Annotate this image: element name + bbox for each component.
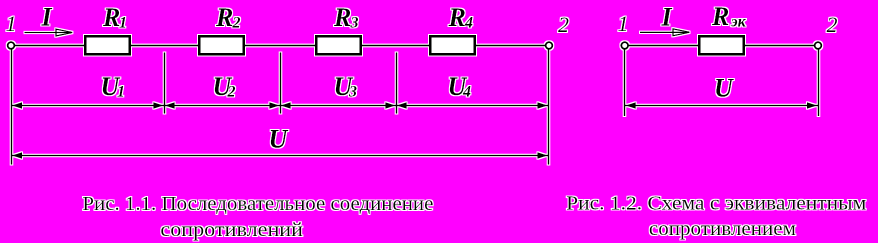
svg-text:I: I: [661, 3, 673, 32]
svg-text:3: 3: [350, 15, 359, 32]
svg-text:эк: эк: [730, 14, 747, 31]
resistor R4 body: [430, 36, 475, 54]
svg-text:U: U: [714, 74, 734, 103]
svg-text:2: 2: [558, 12, 569, 37]
node 2 (right circuit) terminal circle: [815, 42, 822, 49]
resistor R2 body: [199, 36, 244, 54]
svg-text:2: 2: [227, 84, 236, 101]
wire: R4 to node 2: [476, 45, 546, 47]
current arrow I (left circuit): [25, 29, 73, 36]
node 1 (left circuit) terminal circle: [8, 42, 15, 49]
svg-text:1: 1: [119, 15, 127, 32]
svg-text:R: R: [102, 3, 120, 32]
dimension arrow right end (U4): [538, 102, 548, 108]
svg-text:4: 4: [464, 15, 473, 32]
wire: R3 to R4: [362, 45, 430, 47]
dimension line total U row: [11, 155, 549, 157]
dimension arrow left end (right U): [626, 102, 636, 108]
svg-text:R: R: [448, 3, 466, 32]
dimension arrow right end (U): [538, 152, 548, 158]
wire: R2 to R3: [245, 45, 316, 47]
dimension extension line at right node 1: [624, 50, 626, 117]
svg-text:I: I: [41, 2, 53, 31]
svg-text:сопротивлений: сопротивлений: [160, 219, 303, 241]
svg-text:Рис. 1.1. Последовательное сое: Рис. 1.1. Последовательное соединение: [82, 193, 433, 215]
dimension arrow left end (U): [12, 152, 22, 158]
dimension tick between U1 and U2: [164, 53, 166, 114]
resistor R3 body: [316, 36, 361, 54]
current arrow I (right circuit): [640, 29, 689, 36]
wire: R1 to R2: [131, 45, 198, 47]
svg-text:R: R: [711, 2, 729, 31]
dimension line U1..U4 row: [11, 105, 549, 107]
svg-text:2: 2: [827, 12, 838, 37]
svg-text:U: U: [269, 125, 289, 154]
resistor Rek body: [699, 36, 744, 54]
svg-text:1: 1: [117, 84, 125, 101]
svg-text:сопротивлением: сопротивлением: [649, 218, 796, 240]
node 1 (right circuit) terminal circle: [621, 42, 628, 49]
wire: Rek to node 2: [745, 45, 816, 47]
dimension arrows at tick U1/U2: [153, 102, 163, 108]
dimension extension line at node 2: [548, 50, 550, 165]
dimension tick between U3 and U4: [396, 53, 398, 114]
wire: node 1 to Rek: [628, 45, 699, 47]
dimension extension line at right node 2: [818, 50, 820, 117]
wire: node 1 to R1: [14, 45, 85, 47]
dimension arrows at tick U2/U3: [269, 102, 279, 108]
resistor R1 body: [85, 36, 130, 54]
svg-text:2: 2: [232, 15, 241, 32]
svg-text:1: 1: [6, 11, 17, 36]
dimension arrows at tick U3/U4: [385, 102, 395, 108]
svg-text:Рис. 1.2. Схема с эквивалентны: Рис. 1.2. Схема с эквивалентным: [566, 193, 866, 215]
svg-text:3: 3: [348, 84, 357, 101]
dimension line U (right circuit): [625, 105, 819, 107]
svg-text:4: 4: [462, 84, 471, 101]
node 2 (left circuit) terminal circle: [546, 42, 553, 49]
dimension tick between U2 and U3: [280, 53, 282, 114]
dimension arrow right end (right U): [807, 102, 817, 108]
dimension extension line at node 1: [11, 50, 13, 165]
dimension arrow left end (U1): [12, 102, 22, 108]
svg-text:R: R: [333, 3, 351, 32]
svg-text:1: 1: [618, 11, 629, 36]
svg-text:R: R: [215, 3, 233, 32]
